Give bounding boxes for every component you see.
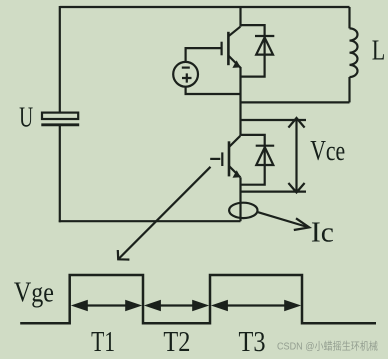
svg-text:T1: T1: [91, 327, 115, 358]
svg-text:Vge: Vge: [14, 278, 54, 309]
svg-text:Ic: Ic: [311, 218, 334, 249]
svg-text:Vce: Vce: [310, 136, 345, 167]
svg-text:CSDN @小蜡摇生环机械: CSDN @小蜡摇生环机械: [277, 340, 378, 353]
svg-text:T3: T3: [239, 327, 266, 358]
svg-text:T2: T2: [163, 327, 190, 358]
svg-text:U: U: [19, 103, 33, 134]
svg-text:L: L: [372, 36, 386, 67]
